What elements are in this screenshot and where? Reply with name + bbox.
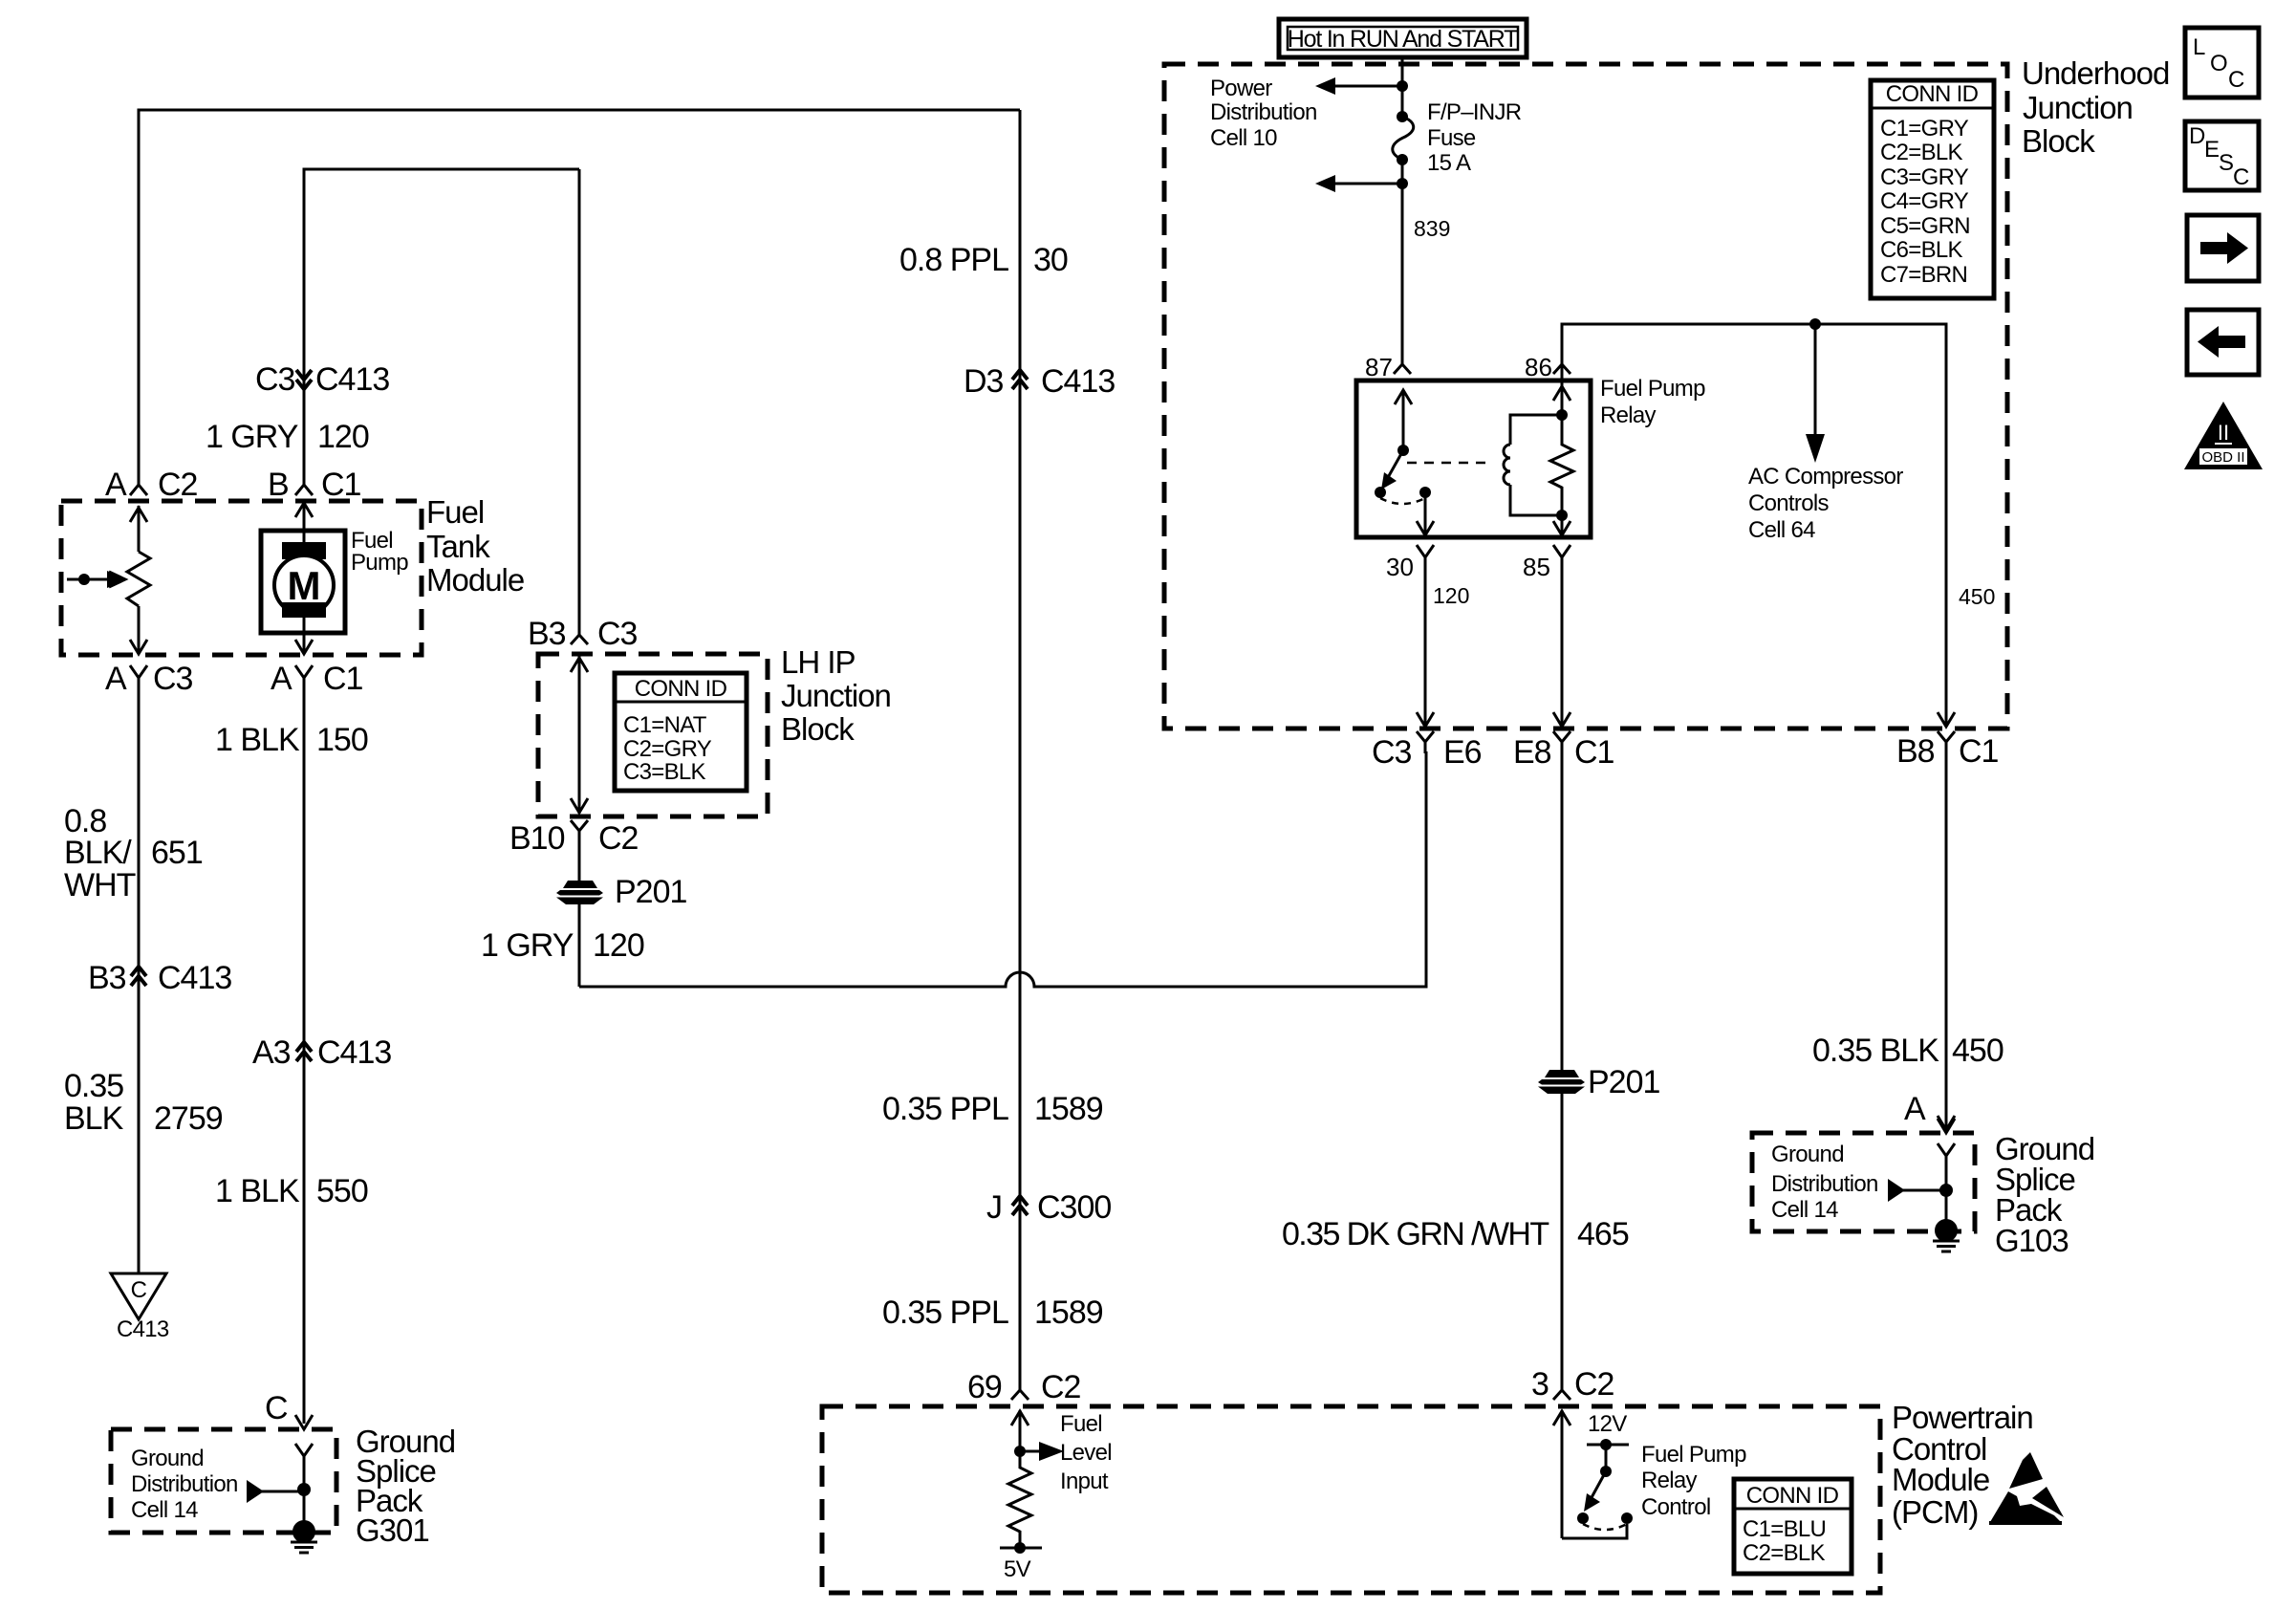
svg-text:C3: C3 xyxy=(1372,734,1412,771)
svg-text:Module: Module xyxy=(1892,1462,1989,1497)
driver switch: NC contact dot xyxy=(1577,1512,1589,1524)
svg-text:Fuel Pump: Fuel Pump xyxy=(1600,376,1705,402)
svg-text:0.35: 0.35 xyxy=(64,1068,123,1104)
in-line harness connector P201 (left) xyxy=(556,881,603,904)
svg-text:B8: B8 xyxy=(1896,733,1935,770)
svg-text:Fuel Pump: Fuel Pump xyxy=(1641,1442,1746,1468)
svg-text:BLK: BLK xyxy=(64,1100,124,1137)
wire entry arrow into G103 xyxy=(1938,1119,1955,1133)
svg-text:C6=BLK: C6=BLK xyxy=(1880,237,1963,263)
relay: NC contact dot xyxy=(1375,487,1386,498)
SECTION: grounds xyxy=(111,1119,2094,1553)
svg-text:C413: C413 xyxy=(158,960,231,996)
svg-text:C413: C413 xyxy=(315,361,389,398)
relay: switch blade (diagonal, arrow to NC contact) xyxy=(1386,450,1403,481)
svg-text:Cell 14: Cell 14 xyxy=(131,1497,198,1523)
svg-text:Cell 14: Cell 14 xyxy=(1771,1197,1838,1223)
fuse: F/P-INJR 15A (S-curve element) xyxy=(1397,111,1408,122)
dashed box: Ground Splice Pack G103 (ground distribution) xyxy=(1752,1133,1975,1231)
svg-text:Underhood: Underhood xyxy=(2022,55,2169,91)
connector Y inside G103 xyxy=(1938,1143,1955,1230)
fuel level input: pull-up resistor to 5V xyxy=(1008,1451,1031,1548)
fuel level input: entry arrow up at pin 69 xyxy=(1011,1410,1029,1451)
relay: wire from pin 86 down to coil with up arrow xyxy=(1553,381,1570,415)
fuel pump: lower wire with exit arrow down xyxy=(295,612,313,654)
arrow: to AC Compressor Controls (solid down arrow) xyxy=(1814,324,1817,442)
svg-text:G103: G103 xyxy=(1995,1223,2069,1258)
svg-text:450: 450 xyxy=(1959,584,1995,609)
driver switch: stem and pivot dot xyxy=(1605,1445,1608,1471)
svg-text:550: 550 xyxy=(316,1173,368,1209)
svg-text:C2: C2 xyxy=(1574,1366,1614,1403)
icon: OBD II triangle xyxy=(2184,402,2263,469)
svg-text:A: A xyxy=(1904,1091,1926,1127)
junction dot (power distribution tap 2) xyxy=(1397,178,1408,189)
svg-text:85: 85 xyxy=(1523,553,1550,581)
svg-text:Input: Input xyxy=(1060,1469,1109,1494)
driver switch: blade with arrow to NC contact xyxy=(1590,1471,1606,1501)
svg-text:C: C xyxy=(131,1277,147,1303)
fuel pump: outer box xyxy=(261,531,345,633)
12V rail bar xyxy=(1587,1444,1629,1447)
fuel pump relay control: entry arrow up at pin 3 xyxy=(1553,1410,1570,1538)
connector A3/C413 in-line (double chevron up) on pump ground wire xyxy=(296,1042,312,1061)
svg-text:J: J xyxy=(986,1189,1002,1226)
relay: dashed actuator link to coil xyxy=(1407,462,1493,465)
junction dot (power distribution tap 1) xyxy=(1397,80,1408,92)
svg-text:C3=BLK: C3=BLK xyxy=(623,759,706,785)
relay pin 86 male connector xyxy=(1553,358,1570,374)
svg-text:P201: P201 xyxy=(615,874,686,910)
svg-text:465: 465 xyxy=(1577,1216,1629,1252)
svg-text:2759: 2759 xyxy=(154,1100,223,1137)
svg-text:Distribution: Distribution xyxy=(131,1471,238,1497)
relay: coil top junction dot xyxy=(1556,409,1568,421)
svg-text:C300: C300 xyxy=(1037,1189,1111,1226)
relay: coil bottom junction dot xyxy=(1556,510,1568,521)
svg-text:0.35 BLK: 0.35 BLK xyxy=(1812,1033,1939,1069)
connector C3 female at E6 (bottom of underhood) xyxy=(1417,731,1434,753)
svg-text:Module: Module xyxy=(426,562,524,598)
svg-text:15 A: 15 A xyxy=(1427,150,1471,176)
svg-text:C2=BLK: C2=BLK xyxy=(1880,140,1963,165)
svg-text:1589: 1589 xyxy=(1034,1091,1103,1127)
wire: feed drop into LH IP junction block xyxy=(578,169,581,635)
in-line harness connector P201 (right) xyxy=(1538,1070,1585,1094)
svg-text:120: 120 xyxy=(317,419,369,455)
svg-text:S: S xyxy=(2219,150,2233,176)
connector B3/C413 in-line (double chevron up) on sender ground wire xyxy=(131,967,146,986)
svg-text:C7=BRN: C7=BRN xyxy=(1880,262,1967,288)
connector J/C300 in-line (double chevron up) xyxy=(1012,1196,1028,1215)
dashed box: Ground Splice Pack G301 (ground distribution) xyxy=(111,1429,336,1533)
svg-text:87: 87 xyxy=(1365,353,1393,381)
ground distribution arrow (solid right triangle) and tie line (G103) xyxy=(1888,1179,1905,1202)
wire: sender branch inside module with entry arrow up xyxy=(130,506,147,552)
relay pin 87 male connector xyxy=(1394,358,1411,374)
ESD sensitivity icon xyxy=(2009,1452,2043,1489)
svg-text:C2=GRY: C2=GRY xyxy=(623,736,712,762)
svg-text:Cell 64: Cell 64 xyxy=(1748,517,1815,543)
arrow: to Power Distribution (upper, solid left arrow) xyxy=(1332,85,1402,88)
dashed box: LH IP Junction Block xyxy=(538,654,768,816)
relay: wire coil bottom to pin 85 with down arrow xyxy=(1553,515,1570,535)
wire: B8 output down to G103 xyxy=(1938,753,1955,1130)
CONN ID table (Underhood) xyxy=(1871,80,1994,298)
wire below P201 xyxy=(578,904,581,987)
fuel pump: motor circle with M xyxy=(274,555,334,615)
svg-text:C1: C1 xyxy=(321,467,361,503)
svg-text:B10: B10 xyxy=(509,820,565,857)
svg-text:LH IP: LH IP xyxy=(781,644,856,680)
splice ball G301 xyxy=(292,1520,315,1543)
wire: top horizontal bus from fuel sender to 0.8 PPL drop xyxy=(139,110,1020,485)
fuel pump: wire through with entry arrow xyxy=(295,501,313,557)
svg-text:Control: Control xyxy=(1641,1494,1710,1520)
relay pin 85 female connector xyxy=(1553,545,1570,572)
wire: sender lower lead with exit arrow down xyxy=(130,606,147,654)
svg-text:12V: 12V xyxy=(1588,1411,1627,1437)
svg-text:WHT: WHT xyxy=(64,867,136,903)
svg-text:C2: C2 xyxy=(158,467,198,503)
svg-text:0.8 PPL: 0.8 PPL xyxy=(899,242,1008,278)
svg-text:P201: P201 xyxy=(1588,1064,1659,1100)
relay: NO contact dot xyxy=(1419,487,1431,498)
svg-text:D: D xyxy=(2189,123,2205,149)
relay: wire NO contact down to pin 30 with down arrow xyxy=(1417,492,1434,535)
relay: common arm wire with up arrow to pin 87 xyxy=(1395,390,1412,447)
wire: horizontal bus from relay 86 corner to 450 drop xyxy=(1562,324,1955,727)
svg-text:1 GRY: 1 GRY xyxy=(206,419,298,455)
SECTION: pcm xyxy=(822,1400,2064,1593)
fuel level input: arrow right (solid) xyxy=(1020,1450,1043,1453)
svg-text:0.35 DK GRN /WHT: 0.35 DK GRN /WHT xyxy=(1282,1216,1549,1252)
svg-text:C3=GRY: C3=GRY xyxy=(1880,164,1969,190)
SECTION: lhip xyxy=(481,169,1426,987)
wiper arrow of fuel level sender with dot xyxy=(78,574,90,585)
svg-text:Level: Level xyxy=(1060,1440,1112,1466)
connector pin B10 female at C2 (out of junction block) xyxy=(571,820,588,882)
svg-text:1 BLK: 1 BLK xyxy=(215,1173,300,1209)
splice ball G103 xyxy=(1935,1219,1958,1242)
svg-text:A: A xyxy=(271,661,292,697)
wire: second horizontal from fuel pump feed to LH IP junction block xyxy=(304,169,579,483)
wire entry arrow into G301 xyxy=(295,1415,313,1429)
svg-text:Ground: Ground xyxy=(1771,1142,1844,1167)
ground symbol G103 xyxy=(1933,1241,1960,1251)
svg-text:C4=GRY: C4=GRY xyxy=(1880,188,1969,214)
svg-text:L: L xyxy=(2193,34,2205,60)
svg-text:0.35 PPL: 0.35 PPL xyxy=(882,1295,1008,1331)
connector E8 female at C1 (bottom of underhood) xyxy=(1553,731,1570,753)
svg-text:C1=BLU: C1=BLU xyxy=(1743,1516,1826,1542)
svg-text:B: B xyxy=(268,467,289,503)
svg-text:E6: E6 xyxy=(1443,734,1482,771)
svg-text:Junction: Junction xyxy=(781,678,891,713)
relay: resistor (right branch zigzag) xyxy=(1550,415,1573,515)
svg-text:C3: C3 xyxy=(153,661,193,697)
svg-text:86: 86 xyxy=(1525,353,1552,381)
svg-text:BLK/: BLK/ xyxy=(64,835,132,871)
svg-text:C413: C413 xyxy=(317,1034,391,1071)
icon: LOC box xyxy=(2185,28,2259,98)
svg-text:M: M xyxy=(288,563,321,608)
wire: relay 85 output down to PCM pin 3 xyxy=(1561,753,1564,1386)
svg-text:1 BLK: 1 BLK xyxy=(215,722,300,758)
svg-text:69: 69 xyxy=(967,1369,1002,1405)
driver switch: dashed throw arc xyxy=(1583,1524,1627,1530)
svg-text:F/P–INJR: F/P–INJR xyxy=(1427,99,1522,125)
arrow: to Power Distribution (lower, solid left arrow) xyxy=(1332,183,1402,185)
wire: sender ground down to C413 triangle xyxy=(138,678,141,1273)
svg-text:A: A xyxy=(105,661,127,697)
svg-text:II: II xyxy=(2218,421,2229,445)
ground symbol G301 xyxy=(291,1542,317,1553)
svg-text:1589: 1589 xyxy=(1034,1295,1103,1331)
5V rail bar xyxy=(1000,1547,1042,1550)
svg-text:30: 30 xyxy=(1386,553,1414,581)
driver switch: top dot on 12V rail xyxy=(1600,1439,1612,1450)
relay pin 30 female connector xyxy=(1417,545,1434,572)
svg-text:Cell 10: Cell 10 xyxy=(1210,125,1277,151)
svg-text:Ground: Ground xyxy=(131,1446,204,1471)
svg-text:B3: B3 xyxy=(528,616,566,652)
resistor: fuel level sender zigzag xyxy=(127,552,150,606)
svg-text:651: 651 xyxy=(151,835,203,871)
svg-text:Fuel: Fuel xyxy=(1060,1411,1102,1437)
svg-text:30: 30 xyxy=(1033,242,1068,278)
svg-text:Pump: Pump xyxy=(351,550,408,576)
svg-text:120: 120 xyxy=(593,927,644,964)
svg-text:Hot In RUN And START: Hot In RUN And START xyxy=(1288,26,1518,53)
wire: 0.8 PPL 30 drop from top bus xyxy=(1019,110,1022,1386)
box: Hot In RUN And START (double border) xyxy=(1279,19,1527,57)
svg-text:C2=BLK: C2=BLK xyxy=(1743,1540,1826,1566)
connector B8 female at C1 (bottom of underhood right) xyxy=(1938,731,1955,753)
CONN ID table (PCM) xyxy=(1734,1479,1852,1574)
svg-text:C413: C413 xyxy=(1041,363,1115,400)
svg-text:E: E xyxy=(2204,137,2219,163)
svg-text:OBD II: OBD II xyxy=(2201,449,2244,466)
svg-text:O: O xyxy=(2210,51,2227,76)
svg-text:C1: C1 xyxy=(323,661,363,697)
fuel level input: junction dot xyxy=(1014,1446,1026,1457)
relay: switch pivot dot xyxy=(1397,445,1409,456)
svg-text:Powertrain: Powertrain xyxy=(1892,1400,2033,1435)
svg-text:3: 3 xyxy=(1531,1366,1549,1403)
icon: back arrow box xyxy=(2187,310,2259,375)
fuel pump: lower brush block (black) xyxy=(282,602,326,618)
svg-text:Block: Block xyxy=(2022,123,2095,159)
svg-text:Tank: Tank xyxy=(426,529,490,564)
svg-text:1 GRY: 1 GRY xyxy=(481,927,574,964)
svg-text:A: A xyxy=(105,467,127,503)
svg-text:Fuse: Fuse xyxy=(1427,125,1476,151)
wire: pump ground down to G301 xyxy=(303,678,306,1424)
connector pin B male at C1 (pump feed into module) xyxy=(295,472,313,495)
svg-text:CONN ID: CONN ID xyxy=(635,676,727,702)
connector pin A male at C2 (sender signal into module) xyxy=(130,472,147,495)
SECTION: icons xyxy=(2184,28,2263,469)
svg-text:Block: Block xyxy=(781,711,855,747)
svg-text:AC Compressor: AC Compressor xyxy=(1748,464,1903,490)
wire: relay 30 down to underhood edge xyxy=(1417,570,1434,727)
svg-text:Distribution: Distribution xyxy=(1210,99,1317,125)
svg-text:D3: D3 xyxy=(964,363,1004,400)
svg-text:G301: G301 xyxy=(356,1512,429,1548)
dashed box: Underhood Junction Block xyxy=(1164,64,2007,729)
svg-text:(PCM): (PCM) xyxy=(1892,1494,1978,1530)
connector pin 3 male at C2 (into PCM) xyxy=(1553,1378,1570,1400)
svg-text:450: 450 xyxy=(1952,1033,2004,1069)
svg-text:C: C xyxy=(2233,164,2249,190)
svg-text:C3: C3 xyxy=(597,616,638,652)
svg-text:Power: Power xyxy=(1210,76,1272,101)
svg-text:Controls: Controls xyxy=(1748,490,1829,516)
svg-text:Relay: Relay xyxy=(1600,402,1657,428)
svg-text:CONN ID: CONN ID xyxy=(1886,81,1979,107)
wire: long horizontal fuel pump feed with hop over PPL wire xyxy=(579,751,1426,987)
svg-text:C413: C413 xyxy=(117,1316,169,1342)
CONN ID table (LH IP) xyxy=(615,673,747,791)
SECTION: top-left circuit xyxy=(61,110,1020,1424)
icon: forward arrow box xyxy=(2187,215,2259,281)
junction dot: AC compressor tap xyxy=(1809,318,1821,330)
svg-text:839: 839 xyxy=(1414,216,1450,241)
connector pin 69 male at C2 (into PCM) xyxy=(1011,1378,1029,1400)
SECTION: center wires xyxy=(882,110,2004,1405)
svg-text:0.35 PPL: 0.35 PPL xyxy=(882,1091,1008,1127)
wire: relay 85 down to underhood edge xyxy=(1553,570,1570,727)
svg-text:C2: C2 xyxy=(1041,1369,1081,1405)
icon: DESC box xyxy=(2185,121,2259,190)
svg-text:C5=GRN: C5=GRN xyxy=(1880,213,1970,239)
svg-text:120: 120 xyxy=(1433,583,1469,608)
svg-text:C1=GRY: C1=GRY xyxy=(1880,116,1969,141)
svg-text:A3: A3 xyxy=(252,1034,291,1071)
wire through junction block with entry and exit arrows xyxy=(571,654,588,814)
driver switch: NO contact dot xyxy=(1621,1512,1633,1524)
fuel pump: upper brush block (black) xyxy=(282,542,326,559)
svg-text:C: C xyxy=(2228,67,2244,93)
relay: coil (left branch with bumps) xyxy=(1504,415,1562,515)
svg-text:CONN ID: CONN ID xyxy=(1746,1483,1839,1509)
svg-text:Distribution: Distribution xyxy=(1771,1171,1878,1197)
connector pin B3 male at C3 (into junction block) xyxy=(571,622,588,644)
connector C3/C413 in-line (double chevron down) on pump feed wire xyxy=(296,370,312,389)
dashed box: Fuel Tank Module xyxy=(61,501,422,655)
off-page triangle C (to C413) xyxy=(111,1273,166,1319)
svg-text:C1: C1 xyxy=(1574,734,1614,771)
fuel pump relay control: wire to NO contact xyxy=(1562,1524,1627,1538)
connector Y inside G301 xyxy=(295,1444,313,1532)
svg-text:150: 150 xyxy=(316,722,368,758)
svg-text:Junction: Junction xyxy=(2023,90,2133,125)
svg-text:B3: B3 xyxy=(88,960,126,996)
SECTION: underhood xyxy=(1164,19,2169,771)
connector pin A female at C1 (pump ground leaving module) xyxy=(295,665,313,693)
svg-text:C: C xyxy=(265,1390,288,1426)
svg-text:C1: C1 xyxy=(1959,733,1999,770)
svg-text:5V: 5V xyxy=(1004,1556,1031,1582)
ground distribution arrow (solid right triangle) and tie line xyxy=(247,1480,264,1503)
svg-text:C1=NAT: C1=NAT xyxy=(623,712,707,738)
wire: from Hot box down to fuse and relay pin 87 xyxy=(1401,57,1404,364)
svg-text:C2: C2 xyxy=(598,820,639,857)
svg-text:C3: C3 xyxy=(255,361,295,398)
svg-text:Relay: Relay xyxy=(1641,1468,1698,1493)
dashed box: Powertrain Control Module xyxy=(822,1406,1880,1593)
relay: dashed throw arc between contacts xyxy=(1380,498,1425,504)
svg-text:E8: E8 xyxy=(1513,734,1551,771)
connector pin A female at C3 (sender ground leaving module) xyxy=(130,665,147,693)
connector D3/C413 in-line (double chevron up) xyxy=(1012,370,1028,389)
box: Fuel Pump Relay xyxy=(1356,381,1591,537)
svg-text:Fuel: Fuel xyxy=(426,494,484,530)
